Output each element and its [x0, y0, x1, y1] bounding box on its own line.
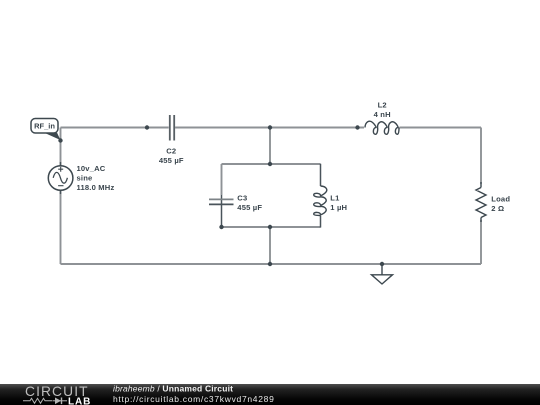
capacitor C3 bottom plate: [209, 203, 234, 205]
resistor Load: [476, 188, 486, 218]
voltage source V1 minus sign: [58, 185, 63, 187]
svg-text:RF_in: RF_in: [34, 121, 55, 130]
footer bar: [0, 384, 540, 405]
wire top rail right segment: [400, 127, 482, 129]
ground stem: [381, 264, 383, 275]
voltage source top lead: [60, 162, 62, 166]
svg-text:1 µH: 1 µH: [330, 203, 347, 212]
node junction top rail before C2: [145, 125, 149, 129]
voltage source V1 plus sign: [58, 167, 63, 172]
voltage source bottom lead: [60, 190, 62, 194]
node junction tank bottom left: [219, 225, 223, 229]
svg-text:ibraheemb / Unnamed Circuit: ibraheemb / Unnamed Circuit: [113, 383, 233, 393]
capacitor C3 top plate: [209, 198, 234, 200]
node junction before L2: [355, 125, 359, 129]
svg-text:2 Ω: 2 Ω: [491, 204, 504, 213]
capacitor C2: [170, 115, 174, 141]
svg-text:C2: C2: [166, 147, 176, 156]
capacitor C3 lead: [221, 195, 223, 227]
voltage source V1 circle: [48, 166, 73, 191]
node junction bottom rail ground: [380, 262, 384, 266]
ground symbol: [372, 275, 393, 284]
node junction top rail above tank: [268, 125, 272, 129]
wire tank loop top: [222, 163, 321, 165]
node junction at RF_in: [58, 138, 62, 142]
inductor L2: [365, 121, 399, 134]
inductor L1: [314, 186, 327, 216]
voltage source V1 sine symbol: [53, 172, 67, 183]
svg-text:L1: L1: [330, 193, 340, 202]
wire tank stem bottom: [269, 227, 271, 264]
wire tank loop left upper: [221, 164, 223, 195]
wire right vertical upper: [480, 128, 482, 185]
svg-text:455 µF: 455 µF: [237, 203, 262, 212]
node junction tank bottom center: [268, 225, 272, 229]
svg-text:L2: L2: [378, 100, 387, 109]
wire left vertical lower: [60, 190, 62, 265]
wire left vertical upper: [60, 128, 62, 167]
node flag RF_in box: [31, 119, 58, 134]
node flag RF_in pointer: [44, 133, 60, 140]
svg-text:455 µF: 455 µF: [159, 156, 184, 165]
node junction bottom rail tank: [268, 262, 272, 266]
resistor Load top lead: [480, 182, 482, 188]
svg-text:10v_AC: 10v_AC: [77, 164, 106, 173]
svg-text:C3: C3: [237, 193, 247, 202]
wire bottom rail: [61, 263, 482, 265]
wire top rail middle segment: [175, 127, 364, 129]
wire tank stem top: [269, 128, 271, 165]
svg-text:Load: Load: [491, 195, 510, 204]
inductor L1 top lead: [320, 164, 322, 186]
svg-text:http://circuitlab.com/c37kwvd7: http://circuitlab.com/c37kwvd7n4289: [113, 394, 275, 404]
node junction tank top: [268, 162, 272, 166]
inductor L1 bottom lead: [320, 216, 322, 228]
resistor Load bottom lead: [480, 218, 482, 223]
logo CircuitLab wire and diode squiggle: [23, 398, 52, 403]
svg-text:sine: sine: [77, 173, 93, 182]
wire top rail left segment: [61, 127, 169, 129]
svg-text:4 nH: 4 nH: [374, 110, 391, 119]
svg-text:LAB: LAB: [68, 397, 91, 405]
wire tank loop bottom: [222, 226, 321, 228]
svg-text:118.0 MHz: 118.0 MHz: [77, 183, 115, 192]
wire right vertical lower: [480, 220, 482, 264]
